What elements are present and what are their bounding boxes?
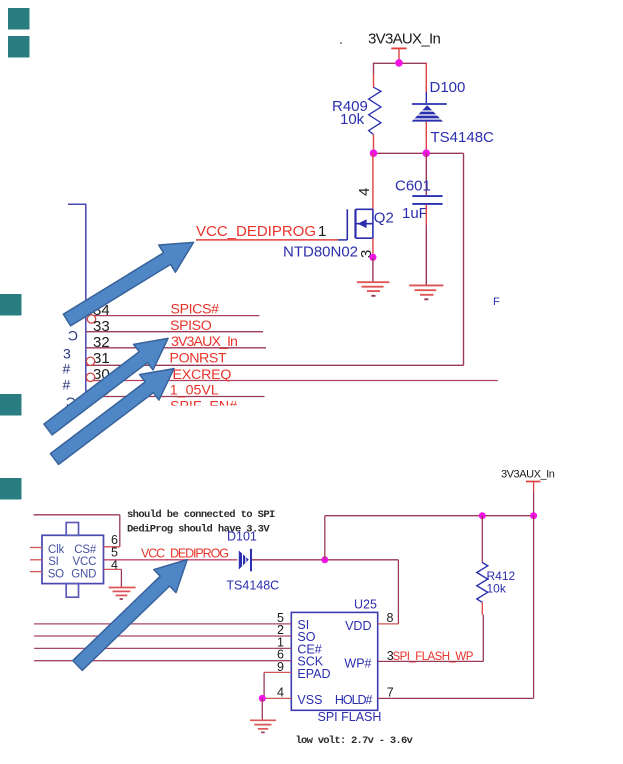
wire bottom power horizontal [325,515,534,517]
wire right vertical to PONRST [463,153,465,365]
annotation arrow 4 [73,560,187,671]
pin 34 SPICS# [86,302,260,324]
wire SO stub [30,571,42,573]
wire diode to junction [252,559,398,561]
svg-text:TS4148C: TS4148C [431,129,495,146]
ground U25 [250,720,276,732]
ground C601 [409,285,443,299]
svg-text:PONRST: PONRST [170,350,227,366]
connector pin name glyph row29 [66,394,76,410]
pin 31 PONRST [86,350,464,367]
capacitor C601 [395,153,443,222]
wire VSS [262,697,292,699]
wire R412 bottom [482,602,483,661]
svg-text:#: # [63,361,71,377]
svg-text:low volt: 2.7v - 3.6v: low volt: 2.7v - 3.6v [296,735,414,747]
wire gate VCC_DEDIPROG [196,239,347,241]
resistor R409 [332,87,381,134]
svg-text:3V3AUX_In: 3V3AUX_In [501,469,555,481]
power symbol 3V3AUX_In bottom [526,482,541,516]
diode D101 [226,530,279,593]
svg-text:SPI FLASH: SPI FLASH [318,710,382,724]
annotation arrow 2 [44,338,168,435]
wire SI [34,623,291,625]
svg-text:32: 32 [93,334,110,351]
wire left branch down to R409 [373,63,375,88]
wire VSS to ground [261,698,263,719]
svg-text:#: # [63,377,71,393]
svg-text:SPISO: SPISO [170,318,212,334]
svg-text:EXCREQ: EXCREQ [173,367,232,383]
wire WP# to R412 [378,660,484,662]
svg-text:TS4148C: TS4148C [226,579,279,593]
junction R412 top [479,512,486,519]
svg-text:U25: U25 [354,598,377,612]
junction middle left [370,149,378,157]
diode D100 [412,79,495,146]
svg-text:8: 8 [387,611,394,625]
junction Q2 source [369,254,376,261]
svg-text:VDD: VDD [345,619,371,633]
svg-text:SPICS#: SPICS# [171,302,220,318]
teal marker square 1 [8,8,30,30]
svg-text:VCC_DEDIPROG: VCC_DEDIPROG [141,547,228,561]
svg-text:GND: GND [71,569,96,581]
pin 30 EXCREQ [86,366,498,383]
connector pin name glyph row33 [68,328,78,344]
ground connector [109,588,136,600]
wire R409 bottom pin [373,135,375,154]
svg-text:SO: SO [48,569,64,581]
svg-text:31: 31 [93,350,110,367]
svg-text:1: 1 [318,223,326,240]
pin 29 1_05VL [86,382,265,399]
connector J? top-left edge [68,204,87,406]
IC U25 SPI FLASH [291,598,381,725]
svg-text:33: 33 [93,318,110,335]
svg-text:VCC: VCC [73,556,97,568]
pin 33 SPISO [86,318,263,335]
svg-text:Q2: Q2 [374,210,394,227]
svg-text:3V3AUX_In: 3V3AUX_In [171,334,237,350]
svg-text:Clk: Clk [48,544,64,556]
svg-text:D100: D100 [430,79,466,96]
annotation arrow 3 [50,369,174,465]
svg-text:7: 7 [387,686,394,700]
svg-text:1uF: 1uF [402,205,428,222]
teal marker square 3 [0,294,22,316]
power symbol 3V3AUX_In top [391,48,406,63]
wire EPAD to VSS [264,672,291,698]
junction middle right [423,149,431,157]
wire Q2 source down [372,238,374,257]
clipped net text bottom row [170,399,237,415]
svg-text:NTD80N02: NTD80N02 [283,244,358,261]
svg-text:4: 4 [277,686,284,700]
svg-text:SI: SI [48,556,58,568]
svg-text:F: F [493,296,500,308]
wire to ground Q2 [372,257,374,282]
wire right branch down to D100 [425,63,427,103]
teal marker square 5 [0,478,22,500]
annotation arrow 1 [63,242,193,325]
connector J2 (DediProg header) body [42,523,104,598]
wire CS# to top rail [34,515,120,547]
wire SCK [34,660,291,662]
transistor Q2 [283,153,394,261]
svg-text:3: 3 [63,346,71,362]
wire SI stub [30,559,42,561]
svg-text:VSS: VSS [297,693,322,707]
wire VDD to rail [378,623,399,625]
junction bottom power corner [530,512,537,519]
svg-text:1_05VL: 1_05VL [170,383,219,399]
junction top [395,59,403,67]
svg-text:C601: C601 [395,178,431,195]
svg-text:3V3AUX_In: 3V3AUX_In [368,31,440,48]
wire to VDD [397,560,399,624]
wire D100 bottom pin [425,122,427,154]
wire GND pin to ground [104,569,122,587]
svg-text:10k: 10k [487,582,507,596]
resistor R412 [477,516,516,603]
svg-text:HOLD#: HOLD# [335,693,373,707]
stray dot [340,42,342,44]
svg-text:D101: D101 [227,530,257,544]
svg-text:should be connected to SPI: should be connected to SPI [127,509,275,521]
wire middle horizontal [374,152,464,154]
wire right vertical to HOLD# [533,516,535,699]
svg-text:EPAD: EPAD [297,667,330,681]
junction D101 [321,556,328,563]
teal marker square 4 [0,394,22,416]
svg-text:WP#: WP# [344,657,371,671]
wire VCC to diode [104,559,238,561]
svg-text:C: C [68,328,78,344]
wire SO [34,635,291,637]
svg-text:4: 4 [356,188,373,196]
svg-text:VCC_DEDIPROG: VCC_DEDIPROG [196,223,316,240]
teal marker square 2 [8,36,30,58]
wire top horizontal [374,62,427,64]
ground Q2 [357,282,390,296]
svg-text:10k: 10k [340,111,365,128]
pin 32 3V3AUX_In [86,334,266,351]
junction VSS [259,695,266,702]
svg-text:CS#: CS# [74,544,97,556]
wire C601 bottom [425,205,427,285]
wire CE# [34,647,291,649]
wire HOLD# to rail [378,697,534,699]
wire junction up [324,516,326,560]
wire Clk stub [30,547,42,549]
